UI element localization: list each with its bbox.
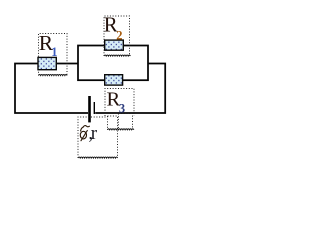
- svg-text:2: 2: [116, 29, 122, 43]
- svg-text:3: 3: [119, 101, 125, 115]
- svg-text:1: 1: [51, 45, 57, 59]
- svg-text:r: r: [91, 123, 98, 144]
